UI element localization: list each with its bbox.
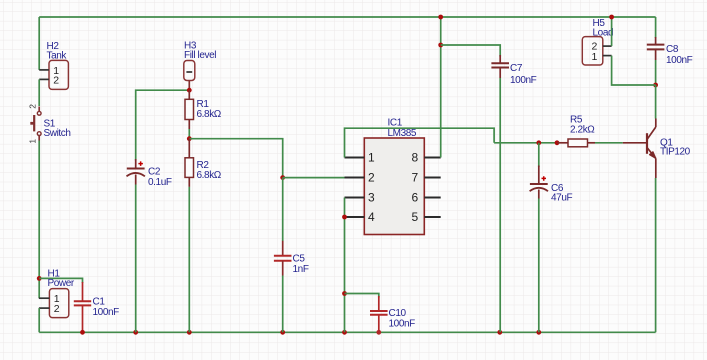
svg-text:3: 3 xyxy=(368,191,375,205)
wire S1 to H1 pin 1 xyxy=(38,141,40,299)
svg-text:2.2kΩ: 2.2kΩ xyxy=(570,125,595,136)
svg-text:4: 4 xyxy=(368,210,375,224)
junction bus C2 xyxy=(133,330,138,335)
capacitor C1 xyxy=(74,282,119,331)
svg-text:6.8kΩ: 6.8kΩ xyxy=(197,170,222,181)
svg-text:TIP120: TIP120 xyxy=(660,147,691,158)
wire C7 to bottom bus xyxy=(499,78,501,332)
svg-text:C10: C10 xyxy=(389,308,407,319)
junction bus C10 xyxy=(376,330,381,335)
svg-text:2: 2 xyxy=(53,75,59,87)
wire left vertical top bus to H2 pin 1 xyxy=(38,17,40,70)
wire IC pin 1 riser to R5 row xyxy=(345,128,495,157)
wire C7 branch xyxy=(441,45,501,57)
wire C8 to collector node xyxy=(655,60,657,85)
svg-text:2: 2 xyxy=(28,104,38,109)
junction C6 top xyxy=(536,140,541,145)
svg-text:1nF: 1nF xyxy=(293,264,309,275)
svg-text:1: 1 xyxy=(28,139,38,144)
capacitor C7 xyxy=(491,55,536,86)
svg-text:1: 1 xyxy=(592,51,598,63)
header H3 xyxy=(184,41,216,91)
svg-text:1: 1 xyxy=(368,151,375,165)
svg-text:C8: C8 xyxy=(666,44,679,55)
svg-text:C7: C7 xyxy=(510,63,523,74)
wire H5 pin 1 to collector node xyxy=(612,56,656,85)
svg-text:47uF: 47uF xyxy=(551,193,572,204)
wire top bus xyxy=(39,16,655,18)
capacitor C8 xyxy=(647,37,693,66)
svg-text:6.8kΩ: 6.8kΩ xyxy=(197,109,222,120)
svg-text:Fill level: Fill level xyxy=(184,50,216,61)
wire collector node down xyxy=(655,85,657,119)
svg-text:7: 7 xyxy=(412,171,419,185)
wire H3 junction to C2 column xyxy=(136,90,190,160)
junction bus C1 xyxy=(80,330,85,335)
svg-text:6: 6 xyxy=(412,191,419,205)
wire to IC pin 2 xyxy=(283,177,345,179)
wire C10 branch xyxy=(345,294,379,298)
resistor R1 xyxy=(185,90,222,129)
wire H1 pin 2 to bottom bus xyxy=(38,308,40,332)
junction bus C5 xyxy=(280,330,285,335)
wire right edge top bus down to C8 xyxy=(655,17,657,38)
svg-text:Load: Load xyxy=(593,28,614,39)
wire C6 to bottom bus xyxy=(538,199,540,333)
junction top bus H5 xyxy=(609,15,614,20)
svg-text:100nF: 100nF xyxy=(510,75,537,86)
svg-text:C5: C5 xyxy=(293,254,306,265)
wire emitter to bottom bus xyxy=(655,178,657,332)
svg-text:2: 2 xyxy=(54,303,60,315)
junction at C1 branch xyxy=(37,276,42,281)
capacitor C10 xyxy=(370,296,415,331)
wire IC pins 3-4 column to bottom bus xyxy=(344,198,346,333)
wire R1 to junction xyxy=(188,129,190,139)
svg-text:8: 8 xyxy=(412,151,419,165)
svg-text:C2: C2 xyxy=(148,167,161,178)
svg-text:C1: C1 xyxy=(93,297,106,308)
svg-text:100nF: 100nF xyxy=(666,55,693,66)
wire C5 column top xyxy=(282,178,284,241)
svg-text:0.1uF: 0.1uF xyxy=(148,177,172,188)
svg-text:IC1: IC1 xyxy=(388,118,403,129)
wire R2 to bottom bus xyxy=(188,187,190,332)
transistor Q1 xyxy=(623,119,691,179)
junction C5 / IC pin 2 xyxy=(280,175,285,180)
wire R5 to Q1 base xyxy=(595,142,623,144)
switch S1 xyxy=(28,104,71,144)
junction IC pin 4 xyxy=(342,215,347,220)
svg-text:Tank: Tank xyxy=(47,51,68,62)
junction C10 branch xyxy=(342,291,347,296)
svg-text:100nF: 100nF xyxy=(389,319,416,330)
capacitor C6 xyxy=(530,166,573,204)
junction R1 / R2 xyxy=(187,136,192,141)
svg-text:2: 2 xyxy=(368,171,375,185)
wire bottom bus xyxy=(39,331,655,333)
connector H1 xyxy=(39,269,75,318)
resistor R5 xyxy=(558,115,596,147)
capacitor C5 xyxy=(274,241,309,276)
capacitor C2 xyxy=(127,159,172,188)
svg-text:Switch: Switch xyxy=(44,128,71,139)
wire branch to C1 xyxy=(39,278,82,283)
wire C5 to bottom bus xyxy=(282,276,284,333)
junction bus C6 xyxy=(536,330,541,335)
connector H5 xyxy=(582,18,613,65)
wire H2 pin 2 to S1 xyxy=(38,79,40,106)
wire R5 row from jog xyxy=(494,142,557,144)
junction C7 branch xyxy=(438,43,443,48)
junction bus pin4 column xyxy=(342,330,347,335)
wire IC pin 8 riser to top bus xyxy=(440,17,442,158)
svg-text:100nF: 100nF xyxy=(93,307,120,318)
connector H2 xyxy=(39,41,68,89)
svg-text:LM385: LM385 xyxy=(388,128,417,139)
svg-text:Power: Power xyxy=(48,278,75,289)
wire C2 to bottom bus xyxy=(135,185,137,333)
junction bus C7 xyxy=(497,330,502,335)
wire H5 pin 2 to top bus xyxy=(611,17,613,46)
wire junction to C5 column xyxy=(189,139,282,178)
junction R5 pin xyxy=(555,140,560,145)
junction top bus pin8 xyxy=(438,15,443,20)
wire C6 column top xyxy=(538,143,540,167)
resistor R2 xyxy=(185,139,222,187)
junction H3 / R1 xyxy=(187,88,192,93)
svg-text:5: 5 xyxy=(412,210,419,224)
junction bus R2 xyxy=(187,330,192,335)
junction collector node xyxy=(653,83,658,88)
op-amp / IC1 LM385 xyxy=(345,118,441,235)
